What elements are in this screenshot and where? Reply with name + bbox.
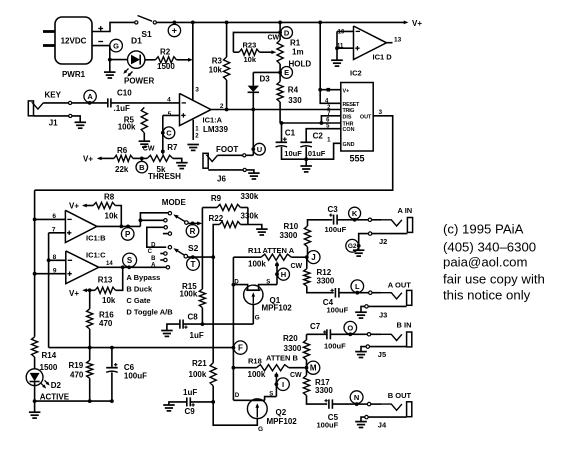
svg-text:CW: CW bbox=[290, 372, 302, 379]
svg-text:C Gate: C Gate bbox=[126, 296, 150, 305]
svg-text:R14: R14 bbox=[42, 351, 57, 360]
svg-text:10: 10 bbox=[338, 30, 345, 36]
svg-text:J4: J4 bbox=[378, 420, 387, 429]
svg-text:13: 13 bbox=[394, 37, 402, 44]
svg-text:R21: R21 bbox=[192, 359, 207, 368]
svg-text:470: 470 bbox=[70, 371, 84, 380]
svg-text:U: U bbox=[257, 145, 262, 154]
svg-text:R10: R10 bbox=[284, 222, 299, 231]
svg-text:C8: C8 bbox=[188, 313, 199, 322]
svg-text:9: 9 bbox=[53, 268, 57, 275]
svg-text:S: S bbox=[266, 279, 270, 285]
svg-text:B Duck: B Duck bbox=[126, 285, 153, 294]
svg-text:G: G bbox=[255, 314, 260, 321]
svg-text:R19: R19 bbox=[69, 361, 84, 370]
svg-text:fair use copy with: fair use copy with bbox=[443, 272, 545, 287]
svg-text:R4: R4 bbox=[288, 85, 299, 94]
svg-text:LM339: LM339 bbox=[203, 125, 228, 134]
svg-text:14: 14 bbox=[106, 261, 113, 267]
svg-text:330k: 330k bbox=[241, 212, 259, 221]
svg-text:J3: J3 bbox=[379, 311, 387, 320]
svg-text:100uF: 100uF bbox=[325, 225, 347, 234]
svg-text:K: K bbox=[352, 209, 358, 218]
svg-text:V+: V+ bbox=[83, 154, 93, 163]
svg-text:ACTIVE: ACTIVE bbox=[40, 392, 70, 401]
svg-text:.01uF: .01uF bbox=[306, 149, 326, 158]
svg-text:S1: S1 bbox=[141, 29, 152, 39]
svg-text:1uF: 1uF bbox=[190, 331, 204, 340]
svg-text:3300: 3300 bbox=[317, 276, 335, 285]
svg-text:CON: CON bbox=[343, 127, 355, 133]
svg-text:C1: C1 bbox=[285, 128, 296, 137]
svg-text:D: D bbox=[151, 242, 156, 248]
svg-text:CW: CW bbox=[143, 145, 155, 152]
svg-text:POWER: POWER bbox=[124, 77, 154, 86]
svg-text:this notice only: this notice only bbox=[443, 288, 531, 303]
svg-text:L: L bbox=[355, 282, 360, 291]
svg-text:12VDC: 12VDC bbox=[61, 37, 87, 46]
svg-text:R8: R8 bbox=[104, 193, 115, 202]
svg-text:G: G bbox=[258, 426, 263, 433]
svg-text:KEY: KEY bbox=[45, 91, 62, 100]
svg-text:R20: R20 bbox=[283, 334, 298, 343]
svg-text:N: N bbox=[354, 393, 359, 402]
svg-text:D Toggle A/B: D Toggle A/B bbox=[126, 308, 173, 317]
svg-text:1m: 1m bbox=[292, 47, 304, 56]
svg-text:DIS: DIS bbox=[343, 114, 352, 120]
svg-text:PWR1: PWR1 bbox=[62, 70, 86, 79]
svg-text:S2: S2 bbox=[188, 243, 199, 253]
svg-text:G2: G2 bbox=[348, 243, 357, 250]
svg-text:A Bypass: A Bypass bbox=[126, 273, 160, 282]
svg-text:C10: C10 bbox=[117, 89, 132, 98]
svg-text:S: S bbox=[269, 391, 273, 397]
svg-text:P: P bbox=[125, 230, 131, 239]
svg-text:C7: C7 bbox=[310, 322, 321, 331]
svg-text:100k: 100k bbox=[248, 259, 266, 268]
svg-text:HOLD: HOLD bbox=[289, 59, 312, 68]
svg-text:F: F bbox=[238, 344, 243, 353]
svg-text:M: M bbox=[310, 364, 317, 373]
svg-text:C3: C3 bbox=[328, 205, 339, 214]
svg-text:Q2: Q2 bbox=[276, 408, 287, 417]
svg-text:A OUT: A OUT bbox=[388, 281, 411, 290]
svg-text:R9: R9 bbox=[211, 194, 222, 203]
svg-text:MODE: MODE bbox=[162, 198, 187, 207]
svg-text:10k: 10k bbox=[105, 211, 119, 220]
svg-text:C9: C9 bbox=[185, 407, 196, 416]
svg-text:R1: R1 bbox=[290, 39, 301, 48]
svg-text:100uF: 100uF bbox=[317, 420, 339, 429]
svg-text:RESET: RESET bbox=[343, 102, 360, 108]
svg-text:D1: D1 bbox=[131, 36, 142, 46]
svg-text:V+: V+ bbox=[69, 289, 79, 298]
svg-text:S: S bbox=[127, 256, 133, 265]
svg-text:CW: CW bbox=[291, 263, 303, 270]
svg-text:R: R bbox=[190, 227, 196, 236]
svg-text:3300: 3300 bbox=[280, 231, 298, 240]
svg-text:D3: D3 bbox=[260, 74, 271, 83]
svg-text:C6: C6 bbox=[124, 363, 135, 372]
svg-text:555: 555 bbox=[350, 153, 365, 163]
svg-text:J6: J6 bbox=[217, 174, 226, 183]
svg-text:330k: 330k bbox=[241, 192, 259, 201]
svg-text:B IN: B IN bbox=[397, 321, 412, 330]
svg-text:paia@aol.com: paia@aol.com bbox=[443, 255, 528, 270]
svg-text:6: 6 bbox=[52, 213, 56, 220]
svg-text:MPF102: MPF102 bbox=[267, 417, 298, 426]
svg-text:J: J bbox=[311, 253, 315, 262]
svg-text:C: C bbox=[148, 249, 153, 255]
svg-text:D: D bbox=[284, 28, 290, 37]
svg-text:R6: R6 bbox=[117, 146, 128, 155]
svg-text:(405) 340–6300: (405) 340–6300 bbox=[443, 240, 536, 255]
svg-text:1500: 1500 bbox=[40, 363, 58, 372]
svg-text:V+: V+ bbox=[412, 19, 422, 28]
svg-text:H: H bbox=[281, 270, 286, 279]
svg-text:R18: R18 bbox=[248, 357, 262, 366]
svg-text:R22: R22 bbox=[209, 214, 224, 223]
svg-text:100k: 100k bbox=[180, 290, 198, 299]
svg-text:IC1:A: IC1:A bbox=[203, 116, 223, 125]
svg-text:8: 8 bbox=[53, 254, 57, 261]
svg-text:3: 3 bbox=[379, 109, 383, 116]
svg-text:3: 3 bbox=[195, 87, 199, 94]
svg-text:IC1 D: IC1 D bbox=[373, 52, 393, 61]
svg-text:TRIG: TRIG bbox=[343, 108, 355, 114]
svg-text:C2: C2 bbox=[313, 132, 324, 141]
svg-text:E: E bbox=[284, 68, 289, 77]
svg-text:3300: 3300 bbox=[284, 344, 302, 353]
svg-text:A IN: A IN bbox=[398, 206, 413, 215]
svg-text:B OUT: B OUT bbox=[388, 391, 412, 400]
svg-text:100uF: 100uF bbox=[327, 306, 349, 315]
svg-text:B: B bbox=[139, 163, 145, 172]
svg-text:R23: R23 bbox=[243, 41, 257, 50]
svg-text:330: 330 bbox=[288, 96, 302, 105]
svg-text:C: C bbox=[166, 129, 172, 138]
svg-text:.1uF: .1uF bbox=[114, 104, 131, 113]
svg-text:R11: R11 bbox=[248, 246, 261, 255]
svg-text:T: T bbox=[191, 260, 196, 269]
svg-text:O: O bbox=[347, 323, 353, 332]
svg-text:R7: R7 bbox=[167, 143, 178, 152]
svg-text:10k: 10k bbox=[209, 66, 223, 75]
svg-text:FOOT: FOOT bbox=[216, 145, 238, 154]
svg-text:1500: 1500 bbox=[157, 62, 175, 71]
svg-text:1uF: 1uF bbox=[183, 388, 197, 397]
svg-text:ATTEN A: ATTEN A bbox=[263, 246, 295, 255]
svg-text:11: 11 bbox=[337, 43, 344, 49]
svg-text:ATTEN B: ATTEN B bbox=[266, 354, 299, 363]
svg-text:J2: J2 bbox=[379, 237, 387, 246]
svg-text:7: 7 bbox=[52, 227, 56, 234]
svg-text:2: 2 bbox=[220, 103, 224, 110]
svg-text:B: B bbox=[151, 256, 156, 262]
svg-text:22k: 22k bbox=[115, 165, 129, 174]
svg-text:R2: R2 bbox=[160, 48, 171, 57]
svg-text:V+: V+ bbox=[343, 88, 350, 94]
svg-text:GND: GND bbox=[343, 142, 355, 148]
svg-text:IC2: IC2 bbox=[350, 68, 362, 77]
svg-text:100k: 100k bbox=[118, 123, 136, 132]
svg-text:G: G bbox=[113, 41, 119, 50]
svg-text:OUT: OUT bbox=[360, 114, 372, 120]
svg-text:+: + bbox=[172, 26, 177, 36]
svg-text:10k: 10k bbox=[102, 296, 116, 305]
svg-text:MPF102: MPF102 bbox=[262, 303, 293, 312]
svg-text:CW: CW bbox=[268, 34, 280, 41]
svg-text:10k: 10k bbox=[244, 55, 257, 64]
svg-text:100k: 100k bbox=[248, 370, 266, 379]
svg-text:3300: 3300 bbox=[315, 386, 333, 395]
svg-text:J1: J1 bbox=[49, 118, 58, 127]
svg-text:IC1:C: IC1:C bbox=[86, 251, 106, 260]
svg-text:(c) 1995 PAiA: (c) 1995 PAiA bbox=[443, 222, 524, 237]
svg-text:V+: V+ bbox=[69, 201, 79, 210]
svg-text:D2: D2 bbox=[51, 381, 62, 390]
svg-text:THRESH: THRESH bbox=[148, 172, 181, 181]
svg-text:J5: J5 bbox=[378, 350, 386, 359]
svg-text:R3: R3 bbox=[212, 57, 223, 66]
svg-text:I: I bbox=[282, 380, 284, 389]
svg-text:D: D bbox=[235, 393, 240, 399]
svg-text:R13: R13 bbox=[98, 275, 113, 284]
svg-text:100k: 100k bbox=[189, 370, 207, 379]
svg-text:10uF: 10uF bbox=[284, 149, 302, 158]
svg-text:IC1:B: IC1:B bbox=[86, 234, 106, 243]
svg-text:100uF: 100uF bbox=[124, 372, 147, 381]
svg-text:A: A bbox=[87, 92, 93, 101]
svg-text:100uF: 100uF bbox=[324, 341, 346, 350]
svg-text:470: 470 bbox=[99, 319, 113, 328]
